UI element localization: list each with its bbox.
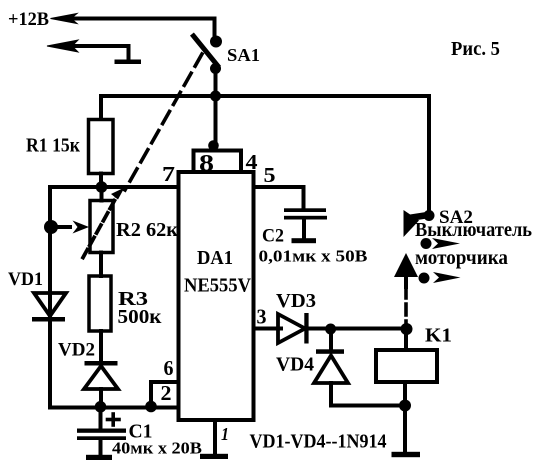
junction K1 bottom xyxy=(399,400,411,412)
svg-text:5: 5 xyxy=(264,163,276,187)
svg-text:SA1: SA1 xyxy=(227,45,260,65)
ground pin1 xyxy=(200,454,228,459)
R2 arrow head xyxy=(111,188,125,200)
switch SA2 xyxy=(424,210,435,221)
wire pin7 xyxy=(50,185,179,189)
ground K1 xyxy=(392,452,421,457)
diode VD4 xyxy=(329,329,333,351)
resistor R1 xyxy=(89,120,114,174)
SA2 contact arrow lower xyxy=(419,273,430,284)
diode VD3 xyxy=(278,314,305,343)
wire pin6 jog xyxy=(151,382,179,407)
junction pin2/6 xyxy=(145,401,157,413)
svg-text:7: 7 xyxy=(162,162,175,186)
potentiometer R2 xyxy=(100,187,104,201)
wire arrow to +12V xyxy=(51,14,78,24)
svg-text:DA1: DA1 xyxy=(197,247,233,269)
svg-text:6: 6 xyxy=(164,356,174,380)
relay K1 coil xyxy=(404,329,408,350)
capacitor C2 xyxy=(284,208,326,212)
svg-text:VD1-VD4--1N914: VD1-VD4--1N914 xyxy=(250,431,387,453)
svg-text:2: 2 xyxy=(161,381,172,405)
wire pin1 xyxy=(213,420,217,454)
svg-text:VD1: VD1 xyxy=(8,269,43,290)
junction pins header xyxy=(208,140,219,151)
svg-text:8: 8 xyxy=(199,151,214,177)
junction C1 xyxy=(95,401,107,413)
pins 8,4 header xyxy=(194,151,242,173)
svg-text:4: 4 xyxy=(246,150,259,174)
junction K1 top xyxy=(401,323,413,335)
svg-text:K1: K1 xyxy=(425,325,452,347)
junction bus/SA1 xyxy=(210,91,221,102)
svg-text:500к: 500к xyxy=(118,306,162,328)
mechanical link dashed SA1-R2 xyxy=(125,54,202,190)
SA2 lever wedge xyxy=(404,210,420,237)
svg-text:Выключатель: Выключатель xyxy=(415,219,532,241)
wire pin3 xyxy=(254,327,282,331)
wire pin5 xyxy=(254,187,304,209)
svg-text:VD3: VD3 xyxy=(276,290,316,312)
svg-text:R2 62к: R2 62к xyxy=(116,219,178,241)
junction R1/pin7 xyxy=(96,181,108,193)
resistor R3 xyxy=(99,253,103,277)
wire bottom rail xyxy=(50,406,179,410)
svg-text:C2: C2 xyxy=(262,226,284,247)
wire R1 bottom stub xyxy=(99,174,103,188)
svg-text:R1 15к: R1 15к xyxy=(26,135,80,157)
ground bar xyxy=(115,60,142,65)
wire SA1 to IC supply pins xyxy=(214,69,218,148)
C1 polarity plus xyxy=(108,418,120,422)
ground C2 xyxy=(292,238,317,243)
op-amp/timer DA1 box xyxy=(179,172,254,420)
wiper junction xyxy=(44,220,58,234)
ground C1 xyxy=(86,455,112,460)
svg-text:NE555V: NE555V xyxy=(184,275,251,297)
wire second arrow stub xyxy=(62,46,129,59)
wire arrow left (ground stub) xyxy=(47,40,78,52)
junction VD4 xyxy=(325,324,336,335)
svg-text:+12В: +12В xyxy=(8,9,49,30)
wiper arrow xyxy=(51,225,70,229)
svg-text:1: 1 xyxy=(221,424,229,444)
relay contact arrow (up) xyxy=(394,253,418,277)
svg-text:40мк x 20В: 40мк x 20В xyxy=(112,439,202,458)
wire left rail xyxy=(48,187,52,408)
svg-text:VD4: VD4 xyxy=(276,355,314,376)
svg-text:Рис. 5: Рис. 5 xyxy=(451,38,500,60)
R2 adjustment dashed diagonal xyxy=(83,196,117,258)
switch SA1 xyxy=(210,36,222,48)
svg-text:VD2: VD2 xyxy=(58,340,95,361)
svg-text:0,01мк x 50В: 0,01мк x 50В xyxy=(259,247,368,266)
SA2 contact arrow upper xyxy=(421,238,432,249)
capacitor C1 xyxy=(99,408,103,430)
diode VD2 xyxy=(85,361,118,366)
wire VD3 to relay xyxy=(309,327,407,331)
wire +12V top feed xyxy=(60,19,215,40)
svg-text:моторчика: моторчика xyxy=(415,247,508,269)
wire R3 to VD2 xyxy=(99,331,103,366)
wire main bus xyxy=(101,96,429,211)
diode VD1 xyxy=(34,293,66,316)
mechanical link dashed K1 contact xyxy=(404,277,408,287)
svg-text:3: 3 xyxy=(257,305,267,329)
